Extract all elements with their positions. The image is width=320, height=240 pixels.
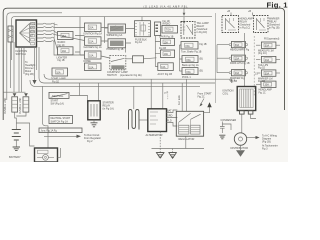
ground condenser [219, 135, 225, 139]
fuse LB1 [256, 42, 280, 55]
svg-text:Fig 1C: Fig 1C [58, 44, 65, 47]
connector plug left of ignition switch [8, 26, 13, 42]
fuse F6 [84, 51, 102, 63]
svg-text:(Fig 1B): (Fig 1B) [25, 73, 34, 76]
wire +B to headlamp relay [230, 13, 232, 16]
svg-text:GRD: GRD [167, 115, 173, 118]
circuit breaker CB1 (hatched) [107, 24, 126, 37]
courtesy lamp switch S5 (dashed) [110, 56, 126, 70]
svg-text:ACC: ACC [30, 23, 35, 26]
inner sheet border [7, 13, 62, 100]
fuse LA1 [229, 42, 250, 52]
ignition coil T1 [237, 87, 256, 115]
svg-text:ACCY Fig 1B: ACCY Fig 1B [158, 73, 173, 76]
svg-text:POWER Fig 1B: POWER Fig 1B [107, 48, 124, 51]
run circuit arrow [44, 135, 77, 137]
svg-text:30A: 30A [265, 73, 270, 76]
feeder bus for B boxes [180, 45, 183, 71]
accessory box right of courtesy [133, 56, 144, 63]
dashed separator between lamp columns [253, 36, 255, 96]
connector block J2 [155, 22, 161, 36]
thermal limiter TL2 [19, 97, 29, 114]
ignition switch U1 [16, 20, 37, 47]
wire drop to coil primary [133, 86, 135, 109]
svg-text:POOL 1: POOL 1 [182, 76, 191, 79]
svg-text:30A: 30A [265, 84, 270, 87]
regulator VR1 [176, 111, 203, 136]
label tail lamp relay [197, 22, 210, 34]
svg-text:FIG(operated): FIG(operated) [264, 37, 279, 40]
svg-text:10A: 10A [56, 71, 61, 74]
starter relay K4 [88, 101, 100, 120]
wire +B to marker relay [252, 13, 254, 16]
svg-text:IGNITION Fig 1A: IGNITION Fig 1A [84, 32, 103, 35]
wire regulator bottom to rail [185, 136, 187, 148]
wire courtesy to right box [126, 58, 157, 59]
connector bar [53, 23, 55, 44]
wire drop to ignition coil [244, 33, 246, 87]
stator winding coil [129, 110, 140, 130]
svg-text:10A: 10A [62, 50, 67, 53]
headlamp relay K1 (dashed) [222, 16, 239, 33]
svg-text:(operated in Fig 1E): (operated in Fig 1E) [120, 74, 142, 77]
svg-text:(B): (B) [200, 70, 203, 73]
fuse LB2 [256, 56, 280, 69]
arrow distributor out [247, 137, 256, 139]
wire battery bus to horn box [43, 86, 49, 148]
ground starter relay [93, 120, 95, 123]
ground rail [152, 148, 205, 150]
svg-text:IGN: IGN [30, 31, 35, 34]
svg-text:FLD: FLD [167, 120, 172, 123]
wire limiters to battery [15, 112, 26, 129]
svg-text:15A: 15A [186, 71, 191, 74]
horizontal line left [3, 91, 25, 93]
wire battery to horn box [16, 123, 34, 146]
svg-text:20A: 20A [235, 72, 240, 75]
svg-text:SWITCH: SWITCH [107, 74, 117, 77]
svg-text:15A: 15A [89, 41, 94, 44]
svg-text:GAUGES Fig 1A: GAUGES Fig 1A [84, 46, 103, 49]
svg-text:REGULATOR: REGULATOR [179, 137, 195, 141]
ground alternator [159, 132, 161, 153]
svg-text:+B: +B [227, 10, 230, 13]
fuse LA3 [229, 70, 247, 83]
terminal pads [31, 23, 35, 25]
wires from switch to fuse block with connector loops [37, 23, 85, 55]
svg-text:15A: 15A [164, 41, 169, 44]
wire coil to distributor [241, 114, 243, 133]
svg-text:SPKR Fig 1B: SPKR Fig 1B [159, 35, 174, 38]
box B1 right-middle [181, 42, 207, 50]
svg-text:ST: ST [30, 35, 34, 38]
neutral start switch label box 2 [49, 116, 73, 124]
fuse F4 IGNITION [84, 23, 103, 35]
svg-text:SW (Fig 1A): SW (Fig 1A) [51, 102, 64, 105]
svg-text:10A: 10A [89, 66, 94, 69]
wire drop to alternator 2 [162, 83, 164, 109]
fuse LB4 [256, 81, 276, 94]
bus wire B [39, 78, 215, 83]
arrow into TL1 [13, 93, 17, 96]
wires from switch going down-left [18, 47, 20, 92]
svg-text:Fig 1C: Fig 1C [259, 91, 266, 94]
svg-text:Turn, Brake Fig 1B: Turn, Brake Fig 1B [181, 51, 202, 54]
svg-text:(in Fig 1A): (in Fig 1A) [103, 108, 114, 111]
svg-text:SWITCH Fig 1A: SWITCH Fig 1A [51, 120, 69, 123]
svg-text:20A: 20A [89, 27, 94, 30]
svg-text:CONDENSER: CONDENSER [221, 119, 237, 122]
fuse F3 DOME [51, 68, 68, 83]
horn relay box [35, 148, 58, 162]
svg-text:15A: 15A [235, 58, 240, 61]
circuit breaker CB2 (hatched) [107, 39, 126, 51]
svg-text:30A: 30A [235, 44, 240, 47]
wire stub to J1 [141, 17, 143, 21]
neutral start switch label box 1 [49, 92, 69, 105]
svg-text:10A: 10A [89, 55, 94, 58]
junction bracket [39, 128, 82, 133]
svg-text:(Fig 1B): (Fig 1B) [262, 141, 271, 144]
svg-text:Junc Fig 1A Fg: Junc Fig 1A Fg [41, 130, 58, 133]
arrow down-left [37, 47, 40, 78]
svg-text:DISTRIBUTOR: DISTRIBUTOR [231, 146, 249, 150]
svg-text:(O LOAD VIA 40 AMP FBL: (O LOAD VIA 40 AMP FBL [144, 6, 189, 9]
feeder bus for fuses [155, 36, 160, 67]
svg-text:10A: 10A [164, 53, 169, 56]
accessory fuse H1 [159, 35, 175, 45]
wire drop to alternator [150, 79, 152, 108]
second inner border [12, 17, 213, 60]
fuse F1 RADIO [58, 32, 74, 47]
wire to starter relay [70, 96, 88, 104]
wire drops to regulator [182, 79, 186, 111]
bus wire A [44, 74, 232, 79]
tail lamp relay K3 (dashed) [181, 22, 195, 39]
svg-text:(Fig 1C): (Fig 1C) [258, 52, 267, 55]
svg-text:in Fig 1C): in Fig 1C) [240, 27, 251, 30]
svg-text:Fig 2: Fig 2 [87, 140, 93, 143]
fuse LA2 [229, 55, 250, 65]
svg-text:+B: +B [248, 10, 251, 13]
fuse LB3 [255, 70, 281, 83]
connector block J1 [135, 21, 151, 44]
thermal limiter TL1 [4, 97, 17, 114]
fuse F7 [85, 63, 102, 71]
arrow into TL2 [24, 93, 28, 96]
svg-text:p R: p R [165, 92, 169, 95]
svg-text:10A: 10A [161, 66, 166, 69]
svg-text:NEUTRAL: NEUTRAL [52, 95, 64, 98]
svg-text:15A: 15A [186, 59, 191, 62]
wires feeding col A [217, 45, 229, 73]
wire col M to col R [75, 28, 135, 53]
svg-text:TOA: TOA [166, 29, 171, 32]
svg-text:in Fig 1D): in Fig 1D) [197, 31, 208, 34]
svg-text:15A: 15A [62, 35, 67, 38]
marker relay K2 (dashed) [254, 16, 269, 33]
fuse F2 CIGAR LIGHTER [57, 47, 74, 62]
outer sheet border [3, 8, 284, 120]
svg-text:30A: 30A [265, 45, 270, 48]
svg-text:PARK LPS Fig 1B: PARK LPS Fig 1B [230, 62, 250, 65]
svg-text:Fig 3: Fig 3 [262, 148, 268, 151]
wire regulator to +B arrow [204, 107, 210, 113]
battery BT1 [12, 130, 21, 147]
svg-text:BATTERY: BATTERY [9, 155, 21, 159]
svg-text:Fig 2C: Fig 2C [198, 96, 205, 99]
ground regulator [172, 149, 174, 153]
rotor fan [20, 24, 30, 43]
wire bus to neutral wire [79, 83, 81, 96]
box B2 right-middle [182, 56, 203, 63]
svg-text:HEADLAMPS Fig: HEADLAMPS Fig [230, 49, 250, 52]
label distributor notes [262, 135, 278, 151]
vertical feeders between columns [80, 17, 85, 55]
svg-text:in Fig 1B): in Fig 1B) [269, 27, 280, 30]
svg-text:Fig 1A: Fig 1A [135, 41, 142, 44]
wire horn box up right [58, 148, 61, 157]
svg-text:Fig 1B: Fig 1B [200, 43, 207, 46]
wire drop to starter relay [98, 83, 100, 101]
bus wire C [30, 80, 200, 86]
svg-text:Fig 1B: Fig 1B [159, 47, 166, 50]
ground battery [13, 147, 20, 151]
accessory box A1 [162, 25, 178, 33]
svg-text:Fig 1B: Fig 1B [58, 59, 65, 62]
svg-text:COIL: COIL [223, 93, 229, 96]
svg-text:Back-up Fig 1A: Back-up Fig 1A [182, 64, 199, 67]
distributor [234, 133, 246, 145]
box B3 right-middle [182, 68, 203, 75]
fuse F5 [84, 37, 103, 49]
svg-text:Fig 1D: Fig 1D [258, 67, 265, 70]
condenser C1 [220, 122, 231, 134]
stub down from bus [231, 79, 233, 83]
svg-text:(B): (B) [200, 58, 203, 61]
svg-text:FUSIBLE LINK: FUSIBLE LINK [19, 97, 22, 114]
node arrow down to fuse area [183, 8, 185, 13]
accessory fuse H3 [158, 63, 174, 76]
label marker relay [269, 18, 280, 30]
svg-text:DOME: DOME [84, 60, 92, 63]
svg-text:20A: 20A [265, 59, 270, 62]
wire coil to alternator [139, 119, 148, 121]
svg-text:WIPER Fig 1A: WIPER Fig 1A [107, 34, 123, 37]
label headlamp relay [240, 18, 254, 30]
svg-text:15A: 15A [185, 45, 190, 48]
ground distributor [240, 145, 242, 150]
accessory fuse H2 [159, 47, 175, 58]
svg-text:BAT: BAT [30, 27, 35, 30]
svg-text:FUSIBLE LINK: FUSIBLE LINK [4, 97, 7, 114]
alternator G1 [148, 109, 173, 132]
sheet boundary line right [215, 13, 217, 103]
svg-text:BAT: BAT [167, 110, 172, 113]
svg-text:A-C term: A-C term [178, 95, 181, 105]
wires alternator to regulator [170, 110, 178, 126]
svg-text:Fig 1: Fig 1 [230, 79, 236, 82]
